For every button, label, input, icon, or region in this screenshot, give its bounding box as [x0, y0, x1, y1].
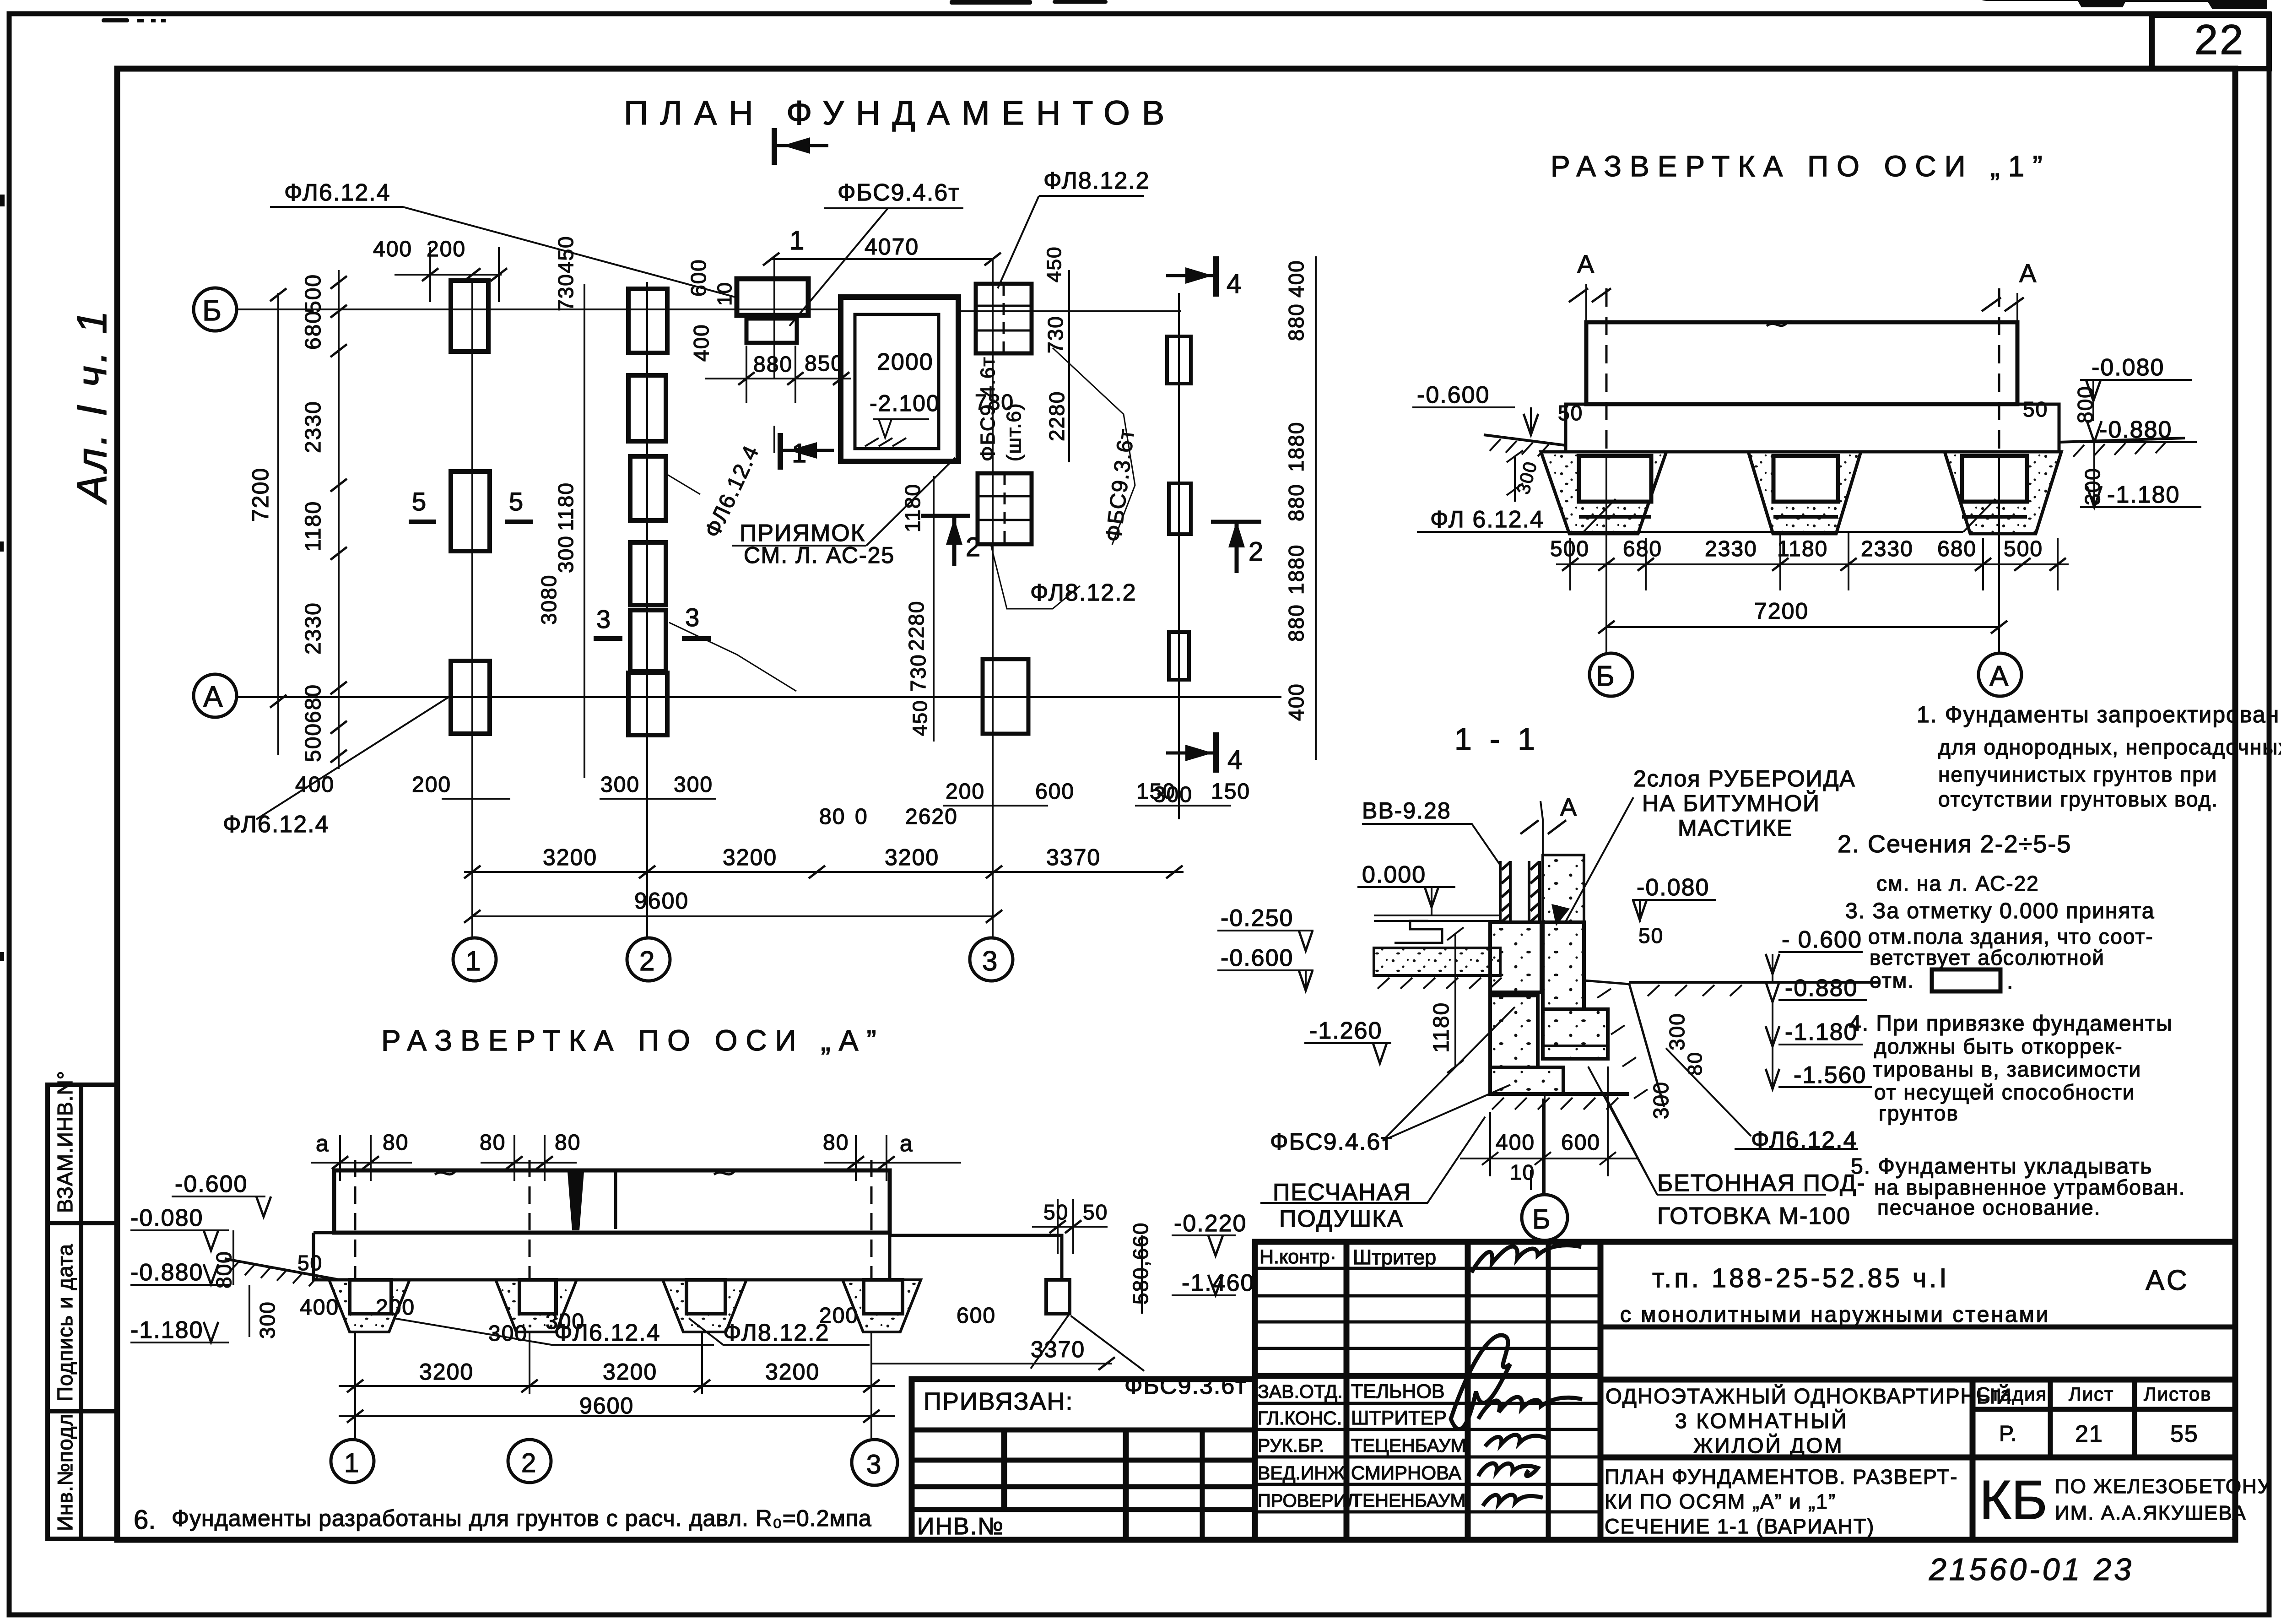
svg-text:600: 600 — [686, 259, 710, 297]
svg-text:500: 500 — [301, 274, 325, 313]
svg-text:1880: 1880 — [1284, 544, 1308, 595]
svg-text:А: А — [1577, 249, 1595, 278]
svg-text:600: 600 — [1035, 780, 1075, 804]
svg-text:ЗАВ.ОТД.: ЗАВ.ОТД. — [1258, 1381, 1343, 1402]
svg-text:1: 1 — [465, 946, 481, 976]
svg-text:500: 500 — [2004, 537, 2043, 561]
svg-text:Подпись и дата: Подпись и дата — [53, 1244, 77, 1402]
svg-text:3080: 3080 — [537, 574, 561, 625]
svg-text:ТЕНЕНБАУМ: ТЕНЕНБАУМ — [1351, 1490, 1466, 1511]
svg-text:-1.260: -1.260 — [1309, 1018, 1382, 1044]
svg-text:ПРОВЕРИЛ: ПРОВЕРИЛ — [1258, 1491, 1359, 1511]
svg-text:50: 50 — [1558, 401, 1583, 425]
svg-text:80: 80 — [383, 1131, 409, 1155]
svg-text:ПО ЖЕЛЕЗОБЕТОНУ: ПО ЖЕЛЕЗОБЕТОНУ — [2055, 1475, 2271, 1498]
svg-text:от несущей способности: от несущей способности — [1874, 1080, 2135, 1104]
svg-text:3: 3 — [596, 605, 611, 633]
svg-text:- 0.600: - 0.600 — [1782, 926, 1862, 953]
svg-text:880: 880 — [753, 352, 793, 377]
svg-text:ОДНОЭТАЖНЫЙ ОДНОКВАРТИРНЫЙ: ОДНОЭТАЖНЫЙ ОДНОКВАРТИРНЫЙ — [1605, 1384, 2012, 1408]
svg-text:50: 50 — [2023, 397, 2048, 421]
svg-text:отм.пола здания, что соот-: отм.пола здания, что соот- — [1868, 925, 2154, 948]
svg-text:300: 300 — [554, 535, 578, 573]
svg-text:ФЛ8.12.2: ФЛ8.12.2 — [1030, 579, 1137, 606]
svg-text:ПЛАН ФУНДАМЕНТОВ: ПЛАН ФУНДАМЕНТОВ — [624, 94, 1176, 132]
svg-text:7200: 7200 — [248, 467, 273, 522]
svg-text:150: 150 — [1211, 780, 1250, 804]
svg-text:-0.080: -0.080 — [1637, 874, 1709, 901]
svg-text:80: 80 — [819, 805, 845, 829]
svg-text:680: 680 — [301, 310, 325, 350]
svg-text:7200: 7200 — [1754, 598, 1809, 624]
svg-text:1: 1 — [344, 1448, 360, 1478]
svg-text:ФЛ8.12.2: ФЛ8.12.2 — [723, 1320, 830, 1346]
svg-text:730450: 730450 — [554, 236, 578, 312]
svg-text:ПОДУШКА: ПОДУШКА — [1279, 1206, 1404, 1232]
svg-text:непучинистых грунтов при: непучинистых грунтов при — [1938, 763, 2217, 786]
svg-text:ШТРИТЕР: ШТРИТЕР — [1351, 1407, 1447, 1429]
svg-text:2слоя РУБЕРОИДА: 2слоя РУБЕРОИДА — [1633, 766, 1856, 791]
svg-text:МАСТИКЕ: МАСТИКЕ — [1678, 815, 1793, 841]
svg-text:300: 300 — [255, 1301, 279, 1339]
svg-text:Б: Б — [202, 294, 222, 327]
svg-text:ПЕСЧАНАЯ: ПЕСЧАНАЯ — [1273, 1179, 1411, 1206]
svg-text:Н.контр·: Н.контр· — [1259, 1246, 1336, 1268]
svg-text:4: 4 — [1227, 269, 1242, 299]
svg-text:400: 400 — [295, 773, 335, 797]
svg-text:300: 300 — [1665, 1012, 1689, 1050]
svg-text:80: 80 — [555, 1131, 581, 1155]
svg-text:200: 200 — [412, 773, 451, 797]
svg-text:СЕЧЕНИЕ 1-1 (ВАРИАНТ): СЕЧЕНИЕ 1-1 (ВАРИАНТ) — [1605, 1515, 1875, 1538]
svg-text:-2.100: -2.100 — [870, 390, 940, 416]
svg-text:ЖИЛОЙ ДОМ: ЖИЛОЙ ДОМ — [1693, 1434, 1844, 1457]
svg-text:400: 400 — [1496, 1131, 1535, 1155]
svg-text:2330: 2330 — [301, 401, 325, 453]
svg-text:4: 4 — [1227, 745, 1243, 775]
svg-text:9600: 9600 — [579, 1393, 634, 1418]
svg-text:ИНВ.№: ИНВ.№ — [917, 1513, 1004, 1540]
svg-text:ПЛАН ФУНДАМЕНТОВ. РАЗВЕРТ-: ПЛАН ФУНДАМЕНТОВ. РАЗВЕРТ- — [1605, 1465, 1958, 1489]
svg-text:КИ ПО ОСЯМ „А” и „1”: КИ ПО ОСЯМ „А” и „1” — [1605, 1490, 1836, 1513]
svg-text:отсутствии грунтовых вод.: отсутствии грунтовых вод. — [1938, 787, 2218, 811]
svg-text:(шт.6): (шт.6) — [1003, 402, 1025, 461]
svg-text:ФБС9.4.6т: ФБС9.4.6т — [1270, 1129, 1393, 1155]
svg-text:580,660: 580,660 — [1129, 1222, 1152, 1305]
svg-text:2280: 2280 — [1045, 391, 1069, 441]
svg-text:10: 10 — [1510, 1160, 1535, 1184]
svg-text:3: 3 — [982, 946, 998, 976]
svg-text:50: 50 — [1083, 1200, 1108, 1224]
svg-text:АС: АС — [2146, 1265, 2190, 1296]
svg-text:400: 400 — [300, 1295, 339, 1320]
svg-text:-0.600: -0.600 — [1221, 945, 1293, 971]
svg-text:1180: 1180 — [1429, 1002, 1454, 1053]
svg-text:-0.880: -0.880 — [2099, 417, 2172, 443]
svg-text:-1.180: -1.180 — [130, 1317, 203, 1343]
svg-text:200: 200 — [946, 780, 985, 804]
svg-text:Фундаменты разработаны для гру: Фундаменты разработаны для грунтов с рас… — [172, 1505, 872, 1531]
svg-text:1: 1 — [792, 438, 807, 468]
svg-text:300: 300 — [488, 1321, 528, 1346]
svg-text:450: 450 — [1043, 246, 1065, 282]
svg-text:0: 0 — [855, 805, 868, 829]
svg-text:3: 3 — [866, 1450, 882, 1479]
svg-text:-1.560: -1.560 — [1794, 1062, 1866, 1088]
svg-text:БЕТОННАЯ ПОД-: БЕТОННАЯ ПОД- — [1657, 1170, 1866, 1196]
svg-text:22: 22 — [2195, 16, 2245, 63]
svg-text:отм.: отм. — [1870, 969, 1914, 992]
svg-text:-0.600: -0.600 — [1417, 382, 1490, 408]
svg-text:3200: 3200 — [885, 844, 939, 870]
svg-text:2620: 2620 — [905, 805, 958, 829]
svg-text:Штритер: Штритер — [1353, 1245, 1436, 1269]
svg-text:РАЗВЕРТКА ПО ОСИ „1”: РАЗВЕРТКА ПО ОСИ „1” — [1551, 150, 2051, 183]
svg-text:3200: 3200 — [765, 1359, 820, 1385]
svg-text:.: . — [2007, 969, 2013, 994]
svg-text:500: 500 — [1550, 537, 1589, 561]
svg-text:Б: Б — [1596, 660, 1616, 692]
svg-text:Инв.№подл.: Инв.№подл. — [53, 1407, 77, 1531]
svg-text:300: 300 — [2081, 467, 2104, 505]
svg-text:ФБС9.4.6т: ФБС9.4.6т — [838, 179, 960, 206]
svg-text:РУК.БР.: РУК.БР. — [1258, 1435, 1324, 1456]
svg-text:1180: 1180 — [301, 501, 325, 552]
svg-text:5: 5 — [412, 487, 427, 516]
svg-text:600: 600 — [957, 1304, 996, 1328]
svg-text:ветствует абсолютной: ветствует абсолютной — [1870, 946, 2105, 969]
svg-text:должны быть откоррек-: должны быть откоррек- — [1874, 1034, 2123, 1058]
svg-text:ТЕЛЬНОВ: ТЕЛЬНОВ — [1351, 1380, 1445, 1402]
svg-text:300: 300 — [600, 773, 640, 797]
svg-text:200: 200 — [427, 237, 466, 261]
svg-text:1: 1 — [789, 226, 805, 255]
svg-text:4. При привязке фундаменты: 4. При привязке фундаменты — [1849, 1012, 2173, 1036]
svg-text:2: 2 — [1249, 537, 1264, 567]
svg-text:680: 680 — [301, 684, 325, 723]
svg-text:600: 600 — [1561, 1131, 1600, 1155]
svg-text:СМИРНОВА: СМИРНОВА — [1351, 1462, 1461, 1483]
svg-text:ФЛ6.12.4: ФЛ6.12.4 — [554, 1320, 661, 1346]
svg-text:-0.880: -0.880 — [1785, 975, 1858, 1001]
svg-text:4070: 4070 — [865, 234, 919, 260]
svg-text:-0.080: -0.080 — [130, 1205, 203, 1231]
svg-text:т.п. 188-25-52.85 ч.I: т.п. 188-25-52.85 ч.I — [1652, 1263, 1950, 1293]
svg-text:300: 300 — [674, 773, 713, 797]
svg-text:880: 880 — [1284, 303, 1308, 341]
svg-text:1. Фундаменты запроектированы: 1. Фундаменты запроектированы — [1917, 702, 2281, 727]
svg-text:НА БИТУМНОЙ: НА БИТУМНОЙ — [1642, 790, 1820, 816]
svg-text:3: 3 — [685, 603, 700, 632]
svg-text:80: 80 — [1684, 1051, 1706, 1076]
svg-text:2330: 2330 — [301, 602, 325, 655]
svg-text:грунтов: грунтов — [1879, 1101, 1959, 1125]
svg-text:Р.: Р. — [1999, 1422, 2017, 1446]
svg-text:55: 55 — [2170, 1421, 2199, 1447]
svg-text:680: 680 — [1937, 537, 1977, 561]
svg-text:2: 2 — [639, 946, 655, 976]
svg-text:2000: 2000 — [877, 349, 934, 375]
svg-text:200: 200 — [376, 1295, 415, 1320]
svg-text:21: 21 — [2075, 1421, 2103, 1447]
svg-text:Ал. I ч. 1: Ал. I ч. 1 — [69, 308, 115, 505]
svg-text:А: А — [2019, 259, 2037, 287]
svg-text:2280: 2280 — [904, 601, 928, 651]
svg-text:9600: 9600 — [634, 888, 689, 914]
svg-text:для однородных, непросадочных,: для однородных, непросадочных, — [1938, 735, 2281, 759]
svg-text:400: 400 — [373, 237, 412, 261]
svg-text:800: 800 — [2073, 385, 2097, 423]
svg-text:6.: 6. — [134, 1505, 156, 1535]
svg-text:-1.460: -1.460 — [1182, 1270, 1254, 1296]
svg-text:3200: 3200 — [723, 844, 777, 870]
svg-text:400: 400 — [689, 324, 713, 362]
svg-text:730: 730 — [1043, 315, 1067, 353]
svg-text:80: 80 — [480, 1131, 506, 1155]
svg-text:80: 80 — [823, 1131, 849, 1155]
svg-text:с монолитными наружными стенам: с монолитными наружными стенами — [1620, 1303, 2050, 1327]
svg-text:3. За отметку 0.000 принята: 3. За отметку 0.000 принята — [1845, 899, 2155, 923]
svg-text:5: 5 — [509, 487, 524, 516]
svg-text:400: 400 — [1284, 260, 1308, 298]
svg-text:-0.880: -0.880 — [130, 1259, 203, 1286]
svg-text:А: А — [1560, 794, 1578, 821]
svg-text:-1.180: -1.180 — [1785, 1019, 1858, 1045]
svg-text:3370: 3370 — [1031, 1337, 1085, 1362]
svg-text:ФБС9.4.6т: ФБС9.4.6т — [977, 356, 999, 461]
svg-text:ФЛ6.12.4: ФЛ6.12.4 — [284, 179, 391, 206]
svg-text:-0.220: -0.220 — [1174, 1210, 1247, 1237]
svg-text:2330: 2330 — [1705, 537, 1757, 561]
svg-text:730: 730 — [906, 654, 930, 692]
svg-text:тированы в, зависимости: тированы в, зависимости — [1873, 1057, 2141, 1081]
svg-text:а: а — [900, 1131, 913, 1156]
svg-text:3200: 3200 — [603, 1359, 657, 1385]
svg-text:ФЛ6.12.4: ФЛ6.12.4 — [223, 811, 330, 838]
svg-text:50: 50 — [1638, 924, 1664, 947]
svg-text:-1.180: -1.180 — [2107, 482, 2180, 508]
svg-text:ВЗАМ.ИНВ.N°: ВЗАМ.ИНВ.N° — [53, 1071, 77, 1213]
svg-text:ИМ. А.А.ЯКУШЕВА: ИМ. А.А.ЯКУШЕВА — [2055, 1502, 2247, 1524]
svg-text:3370: 3370 — [1046, 844, 1101, 870]
svg-text:400: 400 — [1284, 683, 1308, 721]
svg-text:880: 880 — [1284, 604, 1308, 642]
svg-text:450: 450 — [909, 700, 931, 736]
svg-text:50: 50 — [297, 1251, 323, 1275]
svg-text:3200: 3200 — [543, 844, 597, 870]
svg-text:а: а — [316, 1131, 330, 1156]
svg-text:КБ: КБ — [1979, 1469, 2048, 1531]
svg-text:850: 850 — [805, 352, 844, 376]
svg-text:ФЛ 6.12.4: ФЛ 6.12.4 — [1430, 506, 1544, 533]
svg-text:песчаное основание.: песчаное основание. — [1877, 1196, 2101, 1219]
svg-text:ПРИВЯЗАН:: ПРИВЯЗАН: — [924, 1388, 1074, 1415]
svg-text:ФЛ8.12.2: ФЛ8.12.2 — [1043, 168, 1150, 194]
svg-text:ВВ-9.28: ВВ-9.28 — [1362, 798, 1451, 823]
svg-text:500: 500 — [301, 723, 325, 762]
svg-text:РАЗВЕРТКА ПО ОСИ „А”: РАЗВЕРТКА ПО ОСИ „А” — [381, 1024, 885, 1057]
svg-text:ВЕД.ИНЖ·: ВЕД.ИНЖ· — [1258, 1462, 1351, 1483]
svg-text:300: 300 — [1649, 1081, 1673, 1119]
svg-text:ФБС9.3.6т: ФБС9.3.6т — [1124, 1373, 1247, 1399]
svg-text:Листов: Листов — [2144, 1383, 2211, 1405]
svg-text:1 - 1: 1 - 1 — [1454, 722, 1540, 757]
svg-text:1880: 1880 — [1284, 422, 1308, 472]
svg-text:ТЕЦЕНБАУМ: ТЕЦЕНБАУМ — [1351, 1435, 1466, 1456]
svg-text:2: 2 — [521, 1448, 537, 1478]
svg-text:2. Сечения 2-2÷5-5: 2. Сечения 2-2÷5-5 — [1838, 830, 2071, 858]
svg-text:Лист: Лист — [2069, 1383, 2114, 1405]
svg-text:1180: 1180 — [1777, 537, 1828, 561]
svg-text:2: 2 — [966, 532, 981, 562]
svg-text:Б: Б — [1532, 1204, 1550, 1234]
svg-text:А: А — [1989, 660, 2009, 692]
svg-text:880: 880 — [1284, 483, 1308, 521]
svg-text:2330: 2330 — [1861, 537, 1913, 561]
svg-text:680: 680 — [1623, 537, 1662, 561]
svg-text:50: 50 — [1043, 1200, 1069, 1224]
svg-text:Стадия: Стадия — [1976, 1383, 2047, 1405]
svg-text:3 КОМНАТНЫЙ: 3 КОМНАТНЫЙ — [1675, 1409, 1848, 1433]
svg-text:21560-01 23: 21560-01 23 — [1929, 1552, 2134, 1587]
svg-text:800: 800 — [212, 1250, 236, 1288]
svg-text:200: 200 — [819, 1304, 859, 1328]
svg-text:см. на л. АС-22: см. на л. АС-22 — [1876, 872, 2039, 895]
svg-text:1180: 1180 — [554, 482, 578, 531]
svg-text:А: А — [203, 680, 224, 713]
svg-text:ГЛ.КОНС.: ГЛ.КОНС. — [1258, 1407, 1342, 1429]
svg-text:300: 300 — [1153, 783, 1193, 807]
svg-text:-0.250: -0.250 — [1221, 905, 1293, 931]
svg-text:-0.080: -0.080 — [2092, 354, 2164, 381]
svg-text:0.000: 0.000 — [1362, 861, 1426, 888]
svg-text:-0.600: -0.600 — [175, 1171, 248, 1197]
svg-text:3200: 3200 — [419, 1359, 474, 1385]
svg-text:ГОТОВКА М-100: ГОТОВКА М-100 — [1657, 1203, 1851, 1229]
